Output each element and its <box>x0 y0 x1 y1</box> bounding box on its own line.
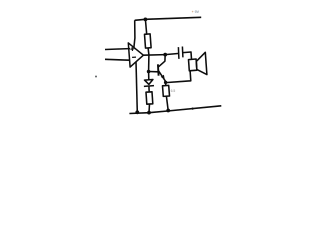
transistor Q1 emitter <box>159 71 167 82</box>
wire left rail upper (V+ to op-amp) <box>134 20 135 47</box>
wire from top rail to resistor R1 <box>145 19 146 34</box>
wire bottom ground rail <box>129 106 221 114</box>
op-amp minus sign <box>132 56 136 58</box>
transistor Q1 base bar <box>157 64 160 75</box>
wire output junction down to base node <box>148 55 150 72</box>
wire resistor R3 to ground rail <box>166 96 168 110</box>
op-amp plus sign <box>130 47 134 51</box>
node small tick on ground rail <box>192 108 194 110</box>
svg-text:+: + <box>192 10 194 14</box>
wire resistor R1 to output node J1 <box>147 48 150 55</box>
transistor Q1 emitter arrow <box>161 75 165 80</box>
transistor Q1 collector <box>159 55 166 67</box>
node junction on top rail <box>144 18 148 22</box>
node C output junction <box>163 53 167 57</box>
wire base lead from node J2 <box>149 71 159 73</box>
node ground junction right <box>166 109 170 113</box>
op-amp U1 <box>128 43 143 67</box>
capacitor C1 <box>178 47 183 59</box>
node +B supply label <box>192 10 200 14</box>
node ground junction middle <box>147 111 151 115</box>
resistor R2 <box>146 92 153 104</box>
wire top supply rail <box>135 17 202 20</box>
wire output node to capacitor C1 <box>165 54 178 55</box>
node ground junction left <box>135 110 139 114</box>
wire left rail lower (op-amp V- to ground rail) <box>136 62 137 113</box>
resistor R1 <box>145 34 152 48</box>
svg-text:9V: 9V <box>195 10 200 14</box>
speaker LS1 frame <box>189 59 197 71</box>
diode D1 cathode bar <box>144 85 154 88</box>
node E emitter junction <box>164 81 167 84</box>
node stray mark <box>95 76 97 78</box>
resistor R3 <box>163 85 170 96</box>
wire base node to diode D1 <box>148 72 150 80</box>
wire emitter node to resistor R3 <box>165 83 167 86</box>
wire resistor R2 to ground rail <box>148 104 151 113</box>
speaker LS1 cone <box>196 52 207 74</box>
node J2 base junction <box>147 70 151 74</box>
wire speaker bottom return to emitter node <box>166 71 191 83</box>
diode D1 triangle <box>145 80 153 85</box>
wire diode D1 to resistor R2 <box>148 86 150 92</box>
svg-text:6.5: 6.5 <box>171 89 176 93</box>
wire op-amp output <box>143 54 165 57</box>
wire capacitor to speaker top <box>183 52 192 59</box>
wire non-inverting input <box>105 48 130 51</box>
wire inverting input <box>105 58 130 61</box>
